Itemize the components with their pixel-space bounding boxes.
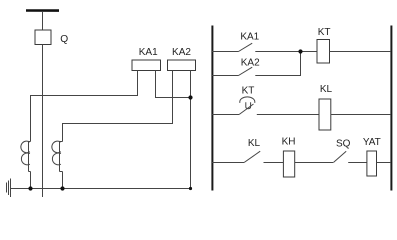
svg-text:YAT: YAT — [363, 137, 381, 148]
svg-text:KL: KL — [248, 138, 261, 149]
svg-text:KA2: KA2 — [172, 47, 191, 58]
svg-text:Q: Q — [60, 34, 68, 45]
svg-text:KT: KT — [242, 86, 255, 97]
svg-text:SQ: SQ — [336, 138, 351, 149]
svg-text:KA1: KA1 — [139, 47, 158, 58]
svg-text:KT: KT — [318, 27, 331, 38]
svg-text:KH: KH — [282, 136, 296, 147]
svg-text:KL: KL — [320, 84, 333, 95]
svg-text:KA2: KA2 — [241, 58, 260, 69]
svg-text:KA1: KA1 — [240, 31, 259, 42]
